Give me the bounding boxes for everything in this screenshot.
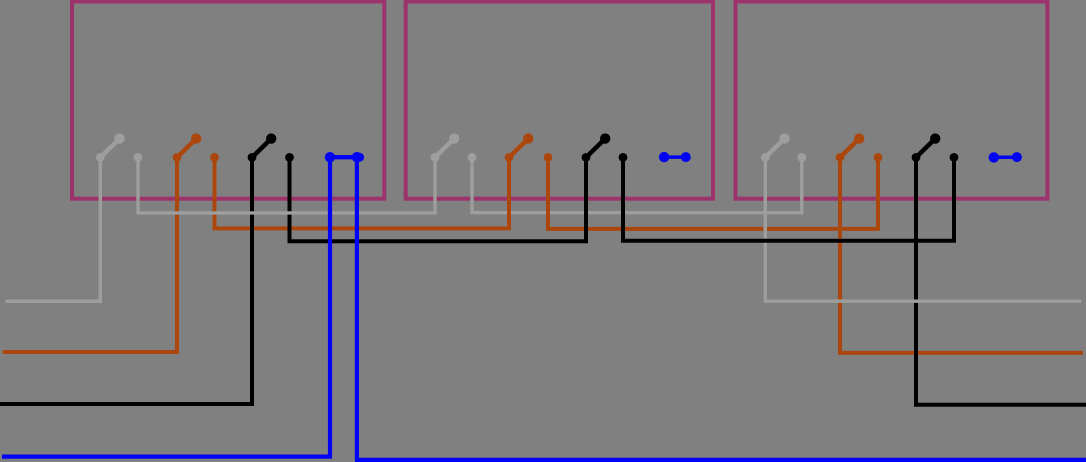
wire box1 white-L dead end left (6, 157, 101, 301)
switch S5 white (box2) open (431, 133, 477, 161)
switch S2 brown (box1) open (173, 133, 219, 161)
wire box1 blue-L to bottom-left (2, 157, 330, 457)
wire black net B (box2 black-R to box3 black-R) (623, 157, 954, 241)
wire box1 black-L to left edge (0, 157, 252, 404)
wire white net A (box1 white-R to box2 white-L) (138, 157, 435, 213)
switch S9 white (box3) open (761, 133, 806, 161)
wire brown net A (box1 brown-R to box2 brown-L) (215, 157, 510, 228)
switch box 2 (406, 2, 713, 199)
wire box1 brown-L to left edge (3, 157, 178, 352)
switch S7 black (box2) open (582, 133, 628, 161)
wire box1 blue-R to bottom-right edge (357, 157, 1086, 460)
switch S12 blue (box3) closed (989, 152, 1022, 162)
wire brown net B (box2 brown-R to box3 brown-R) (548, 157, 878, 229)
switch box 1 (72, 2, 384, 199)
switch S4 blue (box1) closed (325, 152, 364, 162)
wire white net B (box2 white-R to box3 white-R) (472, 157, 802, 213)
switch box 3 (736, 2, 1048, 199)
switch S11 black (box3) open (912, 133, 959, 161)
wire box3 white-L to right edge (765, 157, 1081, 301)
switch S8 blue (box2) closed (659, 152, 691, 162)
switch S3 black (box1) open (248, 133, 294, 161)
switch S10 brown (box3) open (836, 133, 883, 161)
wire black net A (box1 black-R to box2 black-L) (290, 157, 587, 241)
wire box3 black-L to right edge (916, 157, 1086, 405)
wire box3 brown-L to right edge (840, 157, 1083, 353)
switch S6 brown (box2) open (505, 133, 553, 161)
switch S1 white (box1) open (96, 133, 143, 161)
